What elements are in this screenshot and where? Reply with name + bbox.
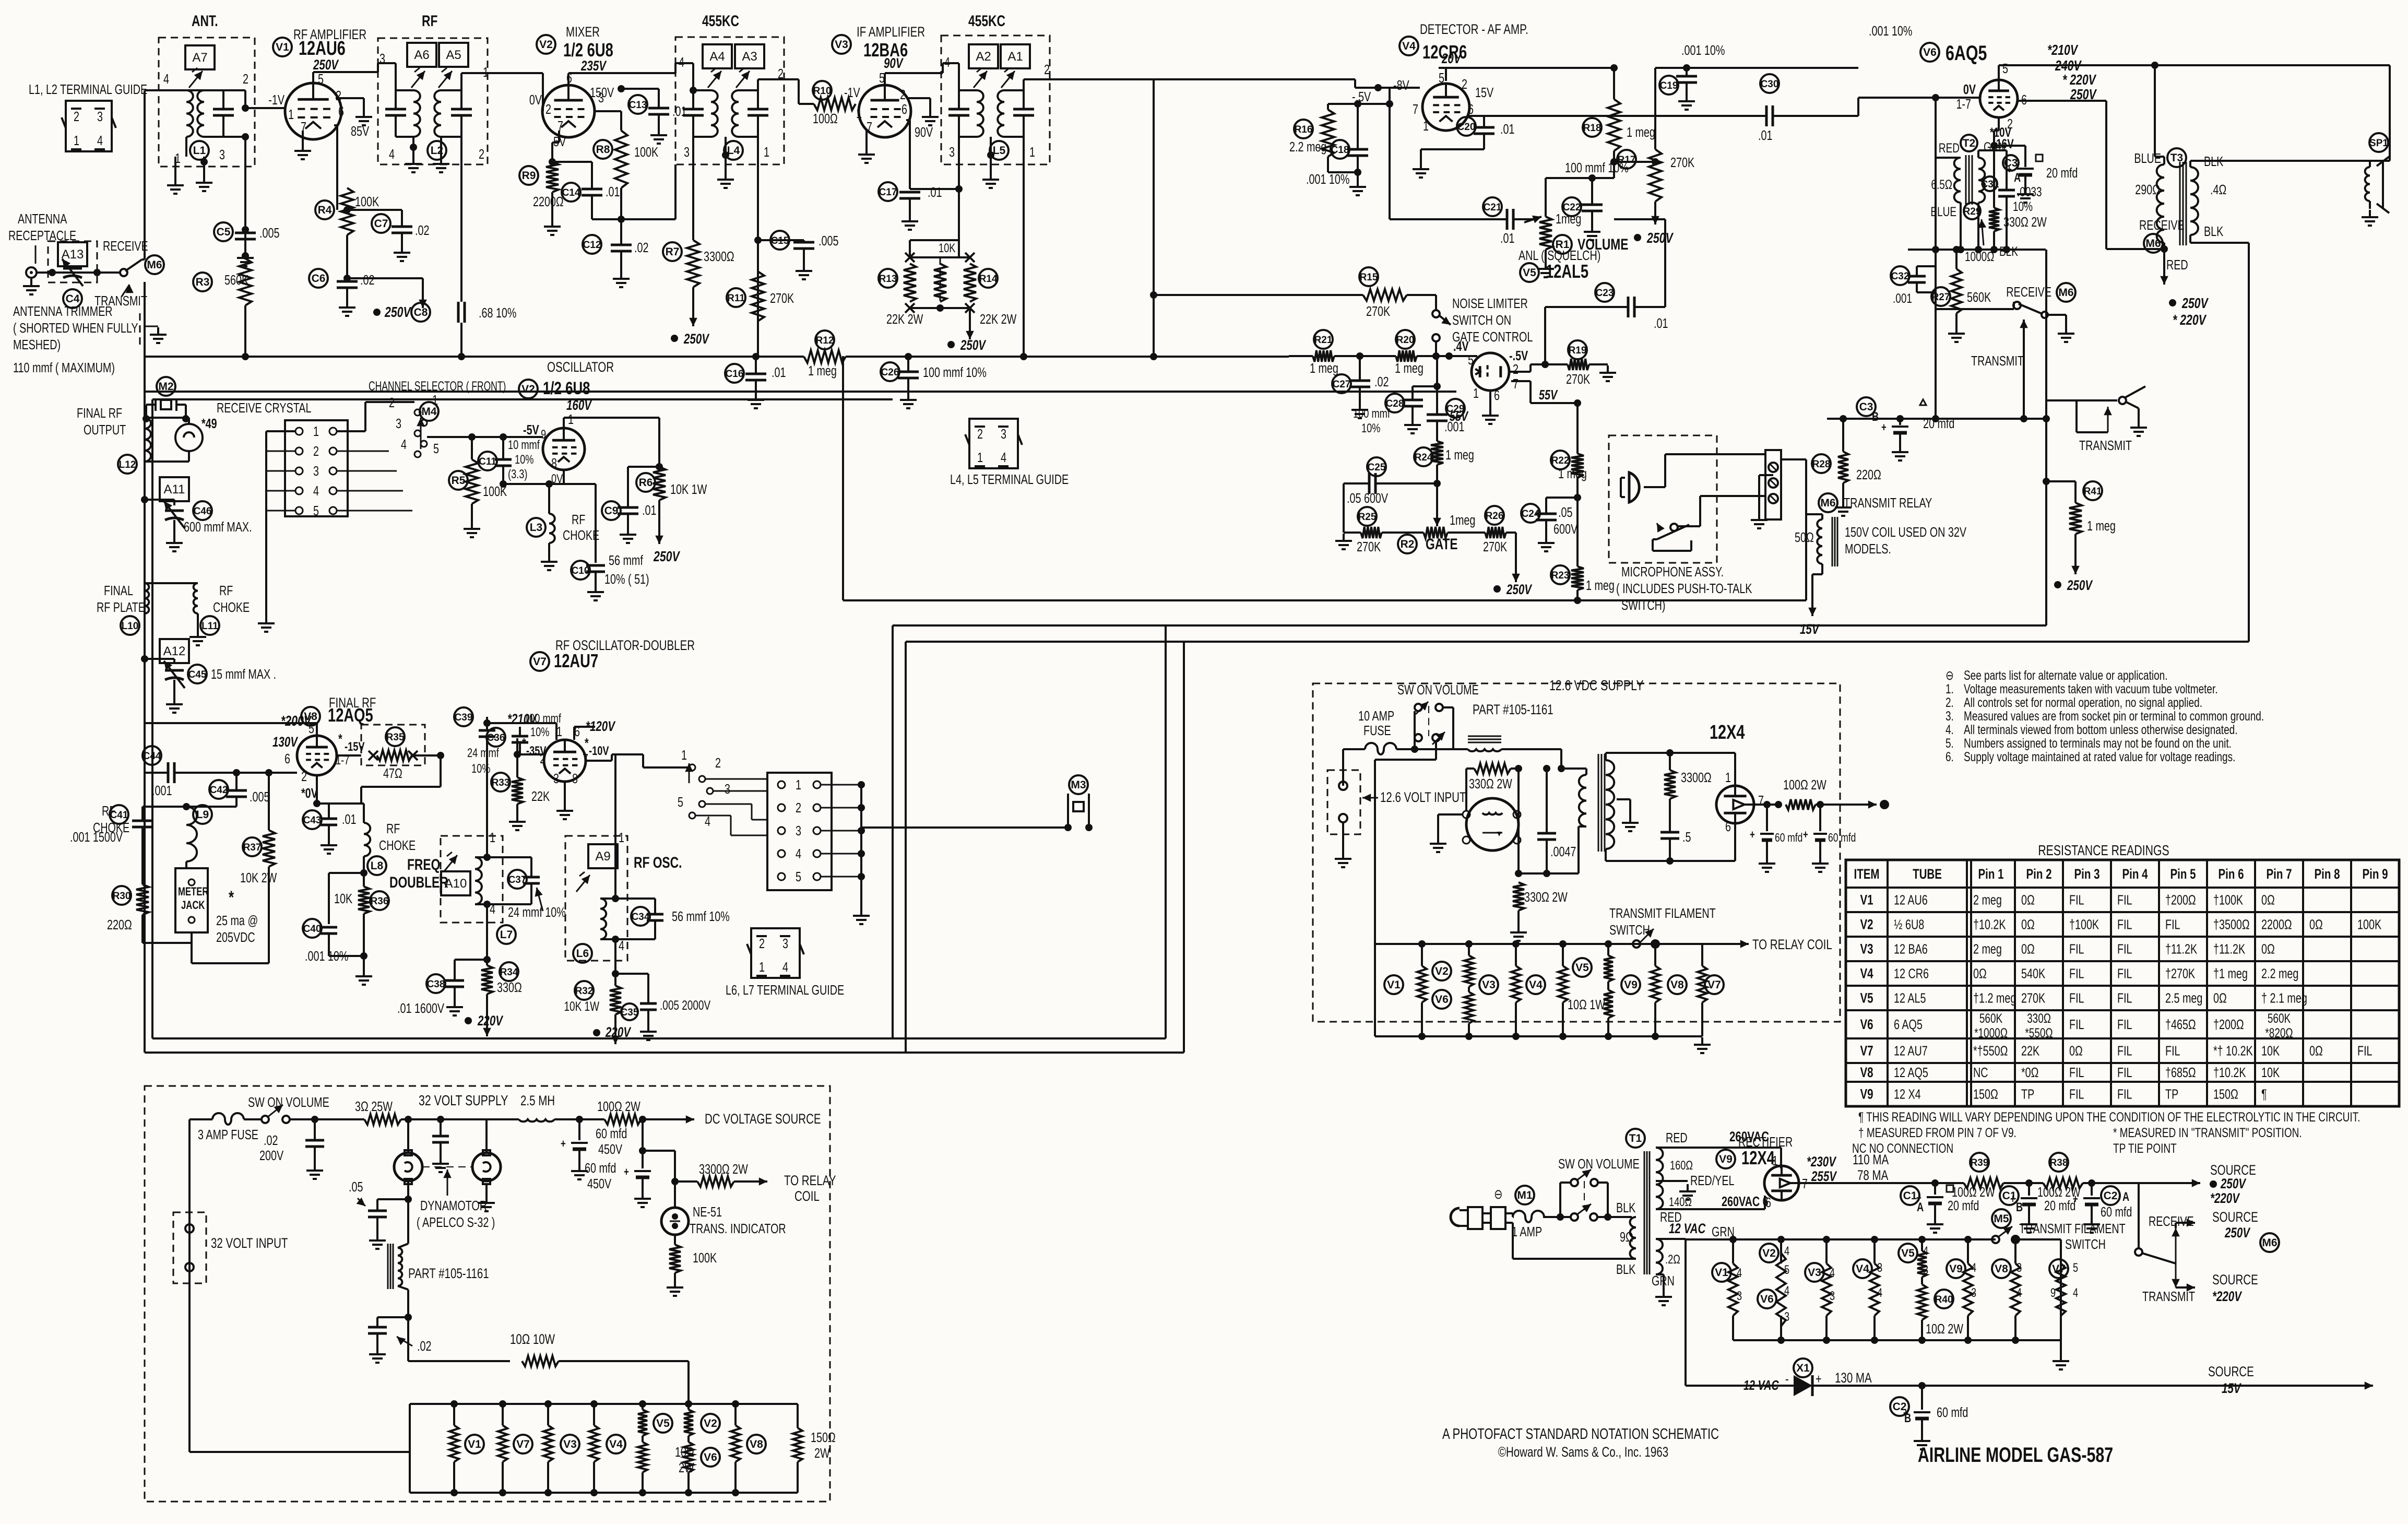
- lamp *49: [175, 424, 203, 451]
- wire V7 plate7 to RF osc: [586, 760, 612, 762]
- svg-text:* MEASURED IN "TRANSMIT" PO: * MEASURED IN "TRANSMIT" POSITION.: [2113, 1125, 2302, 1140]
- svg-text:.4Ω: .4Ω: [2210, 182, 2226, 197]
- svg-text:270K: 270K: [1483, 539, 1508, 554]
- svg-text:1: 1: [759, 959, 765, 974]
- svg-text:FIL: FIL: [2069, 966, 2084, 981]
- svg-text:4: 4: [163, 71, 169, 86]
- svg-text:NC: NC: [1973, 1065, 1988, 1080]
- diode X1 15V supply: [1685, 1239, 1687, 1386]
- svg-text:R9: R9: [522, 170, 536, 182]
- svg-text:R16: R16: [1295, 124, 1313, 135]
- coil L3 RF choke: [549, 514, 555, 543]
- svg-text:†100K: †100K: [2069, 917, 2099, 932]
- capacitor C24 .05 600V: [1521, 504, 1540, 523]
- svg-text:2 meg: 2 meg: [1973, 892, 2002, 907]
- resistor R9 2200ohm: [519, 166, 538, 185]
- svg-text:5: 5: [678, 794, 683, 809]
- svg-text:SW ON VOLUME: SW ON VOLUME: [248, 1094, 329, 1109]
- svg-text:L1: L1: [193, 145, 206, 157]
- wire plate bus to V6 region: [1655, 67, 1858, 69]
- capacitor .0047: [1519, 872, 1547, 875]
- svg-text:R14: R14: [979, 274, 998, 285]
- svg-text:330Ω 2W: 330Ω 2W: [2003, 214, 2047, 229]
- svg-text:1: 1: [313, 423, 319, 439]
- svg-text:250V: 250V: [2220, 1176, 2246, 1191]
- svg-text:1: 1: [490, 830, 495, 845]
- svg-text:78 MA: 78 MA: [1857, 1167, 1888, 1183]
- svg-text:10K 1W: 10K 1W: [670, 481, 707, 497]
- svg-text:B: B: [2016, 1200, 2023, 1214]
- svg-text:C25: C25: [1368, 462, 1386, 473]
- node 250V under R7: [671, 335, 678, 342]
- filament bus 12.6: [1375, 943, 1702, 945]
- svg-text:C42: C42: [210, 785, 228, 796]
- svg-text:455KC: 455KC: [702, 12, 739, 30]
- svg-text:FIL: FIL: [2069, 1065, 2084, 1080]
- capacitor C22 100mmf: [1546, 177, 1592, 179]
- trimmer C46 600mmf: [160, 477, 189, 501]
- svg-text:2: 2: [1513, 361, 1519, 376]
- svg-text:.02: .02: [1374, 374, 1389, 389]
- svg-text:+: +: [1903, 1407, 1908, 1420]
- resistor R41 1meg: [2043, 478, 2050, 485]
- svg-text:-1V: -1V: [844, 85, 860, 100]
- svg-text:ANTENNA TRIMMER: ANTENNA TRIMMER: [13, 303, 113, 318]
- svg-text:M6: M6: [2058, 287, 2073, 299]
- coil L11 RF choke: [194, 583, 198, 613]
- svg-text:.4V: .4V: [1453, 338, 1469, 353]
- svg-text:-: -: [1785, 1371, 1789, 1386]
- svg-text:IF AMPLIFIER: IF AMPLIFIER: [857, 24, 925, 40]
- wire terminal bus: [1781, 458, 1806, 460]
- svg-text:150Ω: 150Ω: [1973, 1086, 1998, 1102]
- svg-text:V7: V7: [1707, 979, 1721, 991]
- coil T2 secondary: [1978, 158, 1985, 203]
- svg-text:( SHORTED WHEN FULLY: ( SHORTED WHEN FULLY: [13, 320, 138, 335]
- svg-text:C20: C20: [1457, 122, 1476, 133]
- svg-text:1 meg: 1 meg: [1395, 360, 1424, 375]
- svg-text:AIRLINE MODEL GAS-587: AIRLINE MODEL GAS-587: [1918, 1443, 2113, 1467]
- svg-text:BLK: BLK: [2204, 223, 2224, 239]
- svg-text:+: +: [2010, 1193, 2015, 1206]
- svg-text:.0047: .0047: [1550, 844, 1576, 859]
- svg-text:A3: A3: [742, 50, 757, 64]
- wire transmit line down: [144, 282, 146, 357]
- svg-text:V4: V4: [1856, 1263, 1869, 1275]
- capacitor 60mfd 450V first: [576, 1116, 583, 1123]
- svg-text:V9: V9: [1860, 1086, 1873, 1102]
- svg-text:JACK: JACK: [181, 899, 205, 912]
- ground V1 cathode: [302, 131, 304, 144]
- wire secondary center tap ground: [1617, 798, 1630, 800]
- svg-text:OSCILLATOR: OSCILLATOR: [547, 359, 614, 375]
- svg-text:2: 2: [715, 755, 721, 770]
- svg-text:15 mmf MAX .: 15 mmf MAX .: [211, 666, 276, 681]
- svg-text:60 mfd: 60 mfd: [596, 1126, 627, 1141]
- svg-text:RF: RF: [219, 583, 233, 598]
- svg-text:6: 6: [1765, 1195, 1771, 1210]
- wire L5 sec top out: [1023, 79, 1025, 90]
- dynamotor 2: [485, 1119, 488, 1153]
- svg-text:V5: V5: [1860, 990, 1873, 1006]
- svg-text:L1, L2 TERMINAL GUIDE: L1, L2 TERMINAL GUIDE: [29, 81, 147, 97]
- svg-text:R21: R21: [1314, 335, 1333, 346]
- svg-text:15V: 15V: [1475, 85, 1494, 100]
- svg-text:-8V: -8V: [1393, 77, 1409, 92]
- svg-text:PART #105-1161: PART #105-1161: [408, 1266, 489, 1281]
- svg-text:SOURCE: SOURCE: [2212, 1209, 2258, 1225]
- svg-text:3: 3: [1830, 1289, 1835, 1303]
- wire 12X4 output: [1754, 804, 1778, 806]
- svg-text:24 mmf: 24 mmf: [467, 746, 499, 760]
- svg-text:TRANSMIT: TRANSMIT: [2079, 438, 2132, 453]
- filament cells t1: [1733, 1339, 2061, 1341]
- coil T3 primary: [2157, 164, 2164, 243]
- resistor R17 270K: [1617, 150, 1636, 169]
- svg-text:250V: 250V: [1646, 230, 1674, 246]
- svg-text:100 mmf 10%: 100 mmf 10%: [923, 364, 987, 380]
- svg-text:10K: 10K: [334, 891, 353, 906]
- capacitor .5: [1660, 831, 1679, 834]
- svg-text:0V: 0V: [1963, 81, 1976, 97]
- svg-text:TRANSMIT FILAMENT: TRANSMIT FILAMENT: [1609, 905, 1716, 920]
- svg-text:2: 2: [545, 101, 551, 116]
- svg-text:150V COIL USED ON 32V: 150V COIL USED ON 32V: [1845, 524, 1967, 539]
- transmit selector contact stack: [689, 764, 695, 771]
- svg-text:90V: 90V: [884, 55, 904, 71]
- svg-text:TP: TP: [2165, 1086, 2178, 1102]
- svg-text:(3.3): (3.3): [508, 467, 527, 481]
- wire M3 to selector: [861, 826, 1068, 829]
- svg-text:†100K: †100K: [2213, 892, 2244, 907]
- coil L1 primary: [186, 90, 193, 137]
- svg-text:SP1: SP1: [2369, 138, 2388, 149]
- svg-text:SW ON VOLUME: SW ON VOLUME: [1397, 682, 1479, 697]
- svg-text:ANTENNA: ANTENNA: [18, 211, 67, 226]
- resistor R10 100ohm: [813, 81, 832, 100]
- svg-text:0Ω: 0Ω: [2309, 917, 2323, 932]
- dynamotor label: [422, 1166, 472, 1167]
- svg-text:L12: L12: [119, 459, 136, 470]
- svg-text:0Ω: 0Ω: [2021, 941, 2035, 956]
- svg-text:60 mfd: 60 mfd: [1828, 832, 1856, 845]
- svg-text:.001 10%: .001 10%: [1681, 42, 1725, 57]
- svg-text:.2Ω: .2Ω: [1665, 1253, 1680, 1267]
- resistor R18 1meg: [1583, 118, 1602, 137]
- svg-text:.02: .02: [634, 240, 648, 255]
- svg-text:C13: C13: [629, 100, 647, 111]
- resistor R11 270K: [727, 288, 745, 307]
- svg-text:25 ma @: 25 ma @: [216, 913, 258, 928]
- svg-text:C14: C14: [562, 187, 580, 198]
- resistor R20 1meg: [1396, 330, 1415, 349]
- svg-text:TO RELAY COIL: TO RELAY COIL: [1752, 937, 1832, 952]
- svg-text:*†550Ω: *†550Ω: [1973, 1043, 2008, 1058]
- svg-text:Voltage measurements taken wit: Voltage measurements taken with vacuum t…: [1964, 681, 2218, 696]
- svg-text:55V: 55V: [1450, 408, 1469, 423]
- capacitor C28 100mmf real: [1385, 394, 1404, 412]
- svg-text:FIL: FIL: [2069, 990, 2084, 1006]
- svg-text:6: 6: [338, 103, 344, 119]
- wire L5 pin4 plate feed: [943, 62, 959, 64]
- svg-text:R35: R35: [386, 732, 405, 743]
- svg-text:2.: 2.: [1946, 695, 1954, 710]
- wire V1 screen: [336, 97, 364, 99]
- svg-text:¶ THIS READING WILL VARY DEP: ¶ THIS READING WILL VARY DEPENDING UPON …: [1858, 1109, 2360, 1124]
- svg-text:SWITCH ON: SWITCH ON: [1452, 312, 1511, 327]
- svg-text:1: 1: [483, 64, 489, 79]
- svg-text:†1.2 meg: †1.2 meg: [1973, 990, 2016, 1006]
- svg-text:V2: V2: [1762, 1247, 1776, 1259]
- svg-text:V7: V7: [516, 1438, 530, 1450]
- svg-text:R22: R22: [1551, 455, 1570, 466]
- svg-text:M6: M6: [2262, 1237, 2277, 1249]
- coil doubler L: [475, 857, 482, 904]
- svg-text:6: 6: [284, 751, 290, 766]
- svg-text:.001 10%: .001 10%: [305, 948, 348, 963]
- svg-text:M6: M6: [1820, 497, 1835, 509]
- svg-text:12 AU6: 12 AU6: [1894, 892, 1928, 907]
- svg-text:6AQ5: 6AQ5: [1946, 41, 1987, 65]
- resistor R25 270K: [1358, 507, 1377, 526]
- capacitor C27 .02: [1356, 352, 1363, 360]
- svg-text:4: 4: [313, 483, 319, 498]
- meter jack box: [175, 868, 208, 932]
- svg-text:C35: C35: [621, 1007, 639, 1018]
- resistor R12 1meg: [815, 330, 834, 349]
- wire R17 top to C19 bus: [1654, 68, 1656, 149]
- svg-text:RF OSC.: RF OSC.: [634, 854, 682, 871]
- svg-text:Pin 5: Pin 5: [2170, 866, 2196, 882]
- svg-text:1: 1: [764, 144, 769, 159]
- svg-text:TUBE: TUBE: [1913, 866, 1942, 882]
- filament bus t1: [1733, 1238, 1996, 1241]
- svg-text:V9: V9: [1949, 1263, 1963, 1275]
- svg-text:12 X4: 12 X4: [1894, 1086, 1921, 1102]
- svg-text:110 mmf ( MAXIMUM): 110 mmf ( MAXIMUM): [13, 360, 115, 375]
- svg-text:235V: 235V: [580, 58, 607, 74]
- svg-text:L2: L2: [431, 145, 444, 157]
- resistor 3300ohm 2W to relay: [671, 1178, 679, 1185]
- coil L5 secondary: [998, 90, 1004, 137]
- svg-text:3300Ω 2W: 3300Ω 2W: [699, 1161, 748, 1176]
- wire wiper to grid line: [420, 418, 422, 449]
- resistor R15 270K: [1154, 294, 1363, 296]
- wire GRN bottom: [1656, 1273, 1664, 1275]
- capacitor C35 .005 2000V: [615, 973, 648, 975]
- svg-text:R37: R37: [243, 842, 262, 853]
- node antenna jack: [26, 267, 37, 278]
- svg-text:A7: A7: [192, 51, 207, 65]
- capacitor C2B 60mfd: [1918, 1382, 1926, 1389]
- svg-text:100K: 100K: [634, 144, 659, 159]
- fuse 3 amp: [212, 1113, 244, 1125]
- capacitor C37 24mmf: [508, 870, 527, 889]
- svg-text:+: +: [624, 1166, 629, 1179]
- svg-text:R34: R34: [500, 967, 518, 978]
- svg-text:V6: V6: [704, 1451, 717, 1463]
- capacitor C12 .02: [583, 235, 601, 254]
- svg-text:C19: C19: [1660, 80, 1678, 91]
- svg-text:.5: .5: [1682, 829, 1691, 844]
- svg-text:3300Ω: 3300Ω: [1681, 770, 1712, 785]
- svg-text:-.5V: -.5V: [1509, 348, 1528, 363]
- svg-text:0Ω: 0Ω: [2021, 917, 2035, 932]
- svg-text:V6: V6: [1760, 1293, 1774, 1305]
- svg-text:M2: M2: [158, 381, 173, 393]
- svg-text:205VDC: 205VDC: [216, 929, 255, 944]
- svg-text:C26: C26: [881, 367, 899, 378]
- wire V5 pin2 to R19: [1509, 371, 1531, 373]
- svg-text:C8: C8: [414, 306, 428, 318]
- svg-text:V4: V4: [1529, 979, 1543, 991]
- svg-text:L10: L10: [122, 621, 139, 632]
- svg-text:TP: TP: [2021, 1086, 2034, 1102]
- resistors R13 R14 22K 2W with 10K: [905, 253, 915, 262]
- svg-text:BLUE: BLUE: [2134, 150, 2161, 166]
- svg-text:V9: V9: [1624, 979, 1638, 991]
- svg-text:56 mmf: 56 mmf: [609, 552, 643, 568]
- svg-text:V4: V4: [1860, 966, 1873, 982]
- svg-text:L4, L5 TERMINAL GUIDE: L4, L5 TERMINAL GUIDE: [950, 471, 1069, 487]
- svg-text:*† 10.2K: *† 10.2K: [2213, 1043, 2253, 1058]
- wires selector left side: [266, 430, 295, 432]
- svg-text:L9: L9: [196, 809, 209, 821]
- svg-text:8: 8: [572, 771, 578, 786]
- ground L2 primary: [412, 137, 414, 157]
- svg-text:.01: .01: [606, 184, 620, 199]
- wire T2 primary: [1936, 157, 1961, 159]
- svg-text:47Ω: 47Ω: [383, 765, 402, 781]
- wire L4 sec top to V3 grid: [757, 79, 759, 90]
- wire L2 sec top to mixer grid: [460, 73, 462, 90]
- svg-text:FIL: FIL: [2069, 892, 2084, 907]
- svg-text:1 meg: 1 meg: [2087, 518, 2116, 533]
- svg-text:15V: 15V: [2222, 1380, 2241, 1396]
- wire V2 cathode: [558, 131, 560, 143]
- resistor R36 10K and C40 parallel: [363, 856, 365, 887]
- svg-text:R23: R23: [1551, 570, 1570, 581]
- svg-text:*49: *49: [201, 416, 217, 431]
- switch sw on volume 32v: [262, 1116, 269, 1123]
- svg-text:+: +: [1816, 1371, 1822, 1386]
- resistor R27 560K: [1931, 287, 1950, 306]
- svg-text:1 meg: 1 meg: [1310, 360, 1338, 375]
- wire V2 plate bus right: [568, 72, 675, 74]
- 32 volt supply dashed box: [145, 1086, 830, 1502]
- svg-text:4: 4: [679, 54, 684, 69]
- svg-text:⊖: ⊖: [1494, 1186, 1503, 1201]
- svg-text:TRANSMIT RELAY: TRANSMIT RELAY: [1844, 495, 1932, 510]
- svg-text:6: 6: [1468, 101, 1474, 116]
- svg-text:22K: 22K: [2021, 1043, 2040, 1058]
- svg-text:100Ω: 100Ω: [813, 111, 838, 126]
- capacitor L4 tank left: [683, 108, 704, 111]
- svg-text:† MEASURED FROM PIN 7 OF: † MEASURED FROM PIN 7 OF V9.: [1858, 1125, 2016, 1140]
- svg-text:.05: .05: [349, 1179, 363, 1194]
- svg-text:NC NO CONNECTION: NC NO CONNECTION: [1852, 1141, 1953, 1155]
- svg-text:270K: 270K: [2021, 990, 2046, 1006]
- capacitor C25 .05 600V: [1367, 457, 1386, 476]
- switch M6 receive/transmit: [120, 269, 127, 276]
- svg-text:0Ω: 0Ω: [2261, 892, 2275, 907]
- svg-text:200V: 200V: [259, 1148, 284, 1163]
- svg-text:250V: 250V: [2224, 1225, 2250, 1241]
- cells verticals: [1780, 1239, 1782, 1263]
- resistor 3300ohm: [1664, 770, 1676, 799]
- svg-text:*: *: [338, 731, 342, 746]
- svg-text:NOISE LIMITER: NOISE LIMITER: [1452, 296, 1528, 311]
- svg-text:150Ω: 150Ω: [2213, 1086, 2238, 1102]
- svg-text:20 mfd: 20 mfd: [2044, 1198, 2075, 1213]
- svg-text:RF: RF: [572, 512, 585, 527]
- svg-text:3: 3: [97, 109, 103, 124]
- node L6 L7 terminal guide: [751, 928, 800, 978]
- svg-text:RECEIVE: RECEIVE: [103, 238, 148, 253]
- svg-text:4: 4: [796, 846, 801, 861]
- wire 32v bottom bus: [407, 1317, 409, 1361]
- svg-text:15V: 15V: [1800, 621, 1820, 637]
- svg-text:RED: RED: [2166, 257, 2188, 272]
- svg-text:FUSE: FUSE: [1363, 723, 1391, 738]
- svg-text:ITEM: ITEM: [1854, 866, 1879, 882]
- svg-text:FIL: FIL: [2117, 1017, 2132, 1032]
- svg-text:.02: .02: [360, 272, 374, 287]
- svg-text:TP TIE POINT: TP TIE POINT: [2113, 1141, 2177, 1155]
- wire AVC bus: [145, 356, 804, 358]
- svg-text:Pin 2: Pin 2: [2026, 866, 2051, 882]
- svg-text:A1: A1: [1007, 50, 1023, 64]
- coil L2 secondary: [434, 90, 441, 137]
- svg-text:.01: .01: [1654, 315, 1668, 330]
- svg-text:10Ω 1W: 10Ω 1W: [1568, 997, 1605, 1012]
- svg-text:BLUE: BLUE: [1930, 204, 1956, 219]
- svg-text:20V: 20V: [1441, 51, 1462, 66]
- svg-text:7: 7: [1413, 101, 1418, 116]
- svg-text:C17: C17: [879, 187, 897, 198]
- svg-text:A4: A4: [709, 50, 725, 64]
- svg-text:1.: 1.: [1946, 681, 1954, 696]
- resistor R35 47ohm: [361, 725, 425, 765]
- svg-text:FIL: FIL: [2117, 1086, 2132, 1102]
- svg-text:1 meg: 1 meg: [1445, 447, 1474, 462]
- svg-text:12X4: 12X4: [1741, 1147, 1775, 1168]
- svg-text:*220V: *220V: [2212, 1289, 2243, 1304]
- wire receive section right border: [2045, 250, 2047, 625]
- resistor R26 270K: [1485, 506, 1504, 525]
- svg-text:M3: M3: [1071, 779, 1086, 791]
- resistor R3 560K: [193, 273, 212, 291]
- svg-text:GRN: GRN: [1652, 1273, 1675, 1288]
- svg-text:22K: 22K: [531, 788, 550, 804]
- svg-text:4: 4: [389, 146, 395, 161]
- svg-text:.01 1600V: .01 1600V: [397, 1000, 445, 1015]
- svg-text:130 MA: 130 MA: [1835, 1370, 1872, 1386]
- svg-text:2: 2: [479, 146, 484, 161]
- capacitor 60mfd b: [1817, 801, 1824, 808]
- svg-text:C39: C39: [455, 712, 473, 723]
- crystal M3 transmit: [1069, 775, 1088, 794]
- wire V3 plate: [884, 73, 886, 85]
- svg-text:.02: .02: [417, 1338, 431, 1353]
- svg-text:A: A: [2014, 171, 2021, 185]
- svg-text:10 mmf: 10 mmf: [508, 438, 540, 452]
- svg-text:560K: 560K: [1967, 289, 1991, 304]
- svg-text:290Ω: 290Ω: [2135, 182, 2160, 197]
- wire terminal to ground: [1759, 474, 1773, 476]
- svg-text:0Ω: 0Ω: [2309, 1043, 2323, 1058]
- wire to 60mfd second: [642, 1119, 644, 1151]
